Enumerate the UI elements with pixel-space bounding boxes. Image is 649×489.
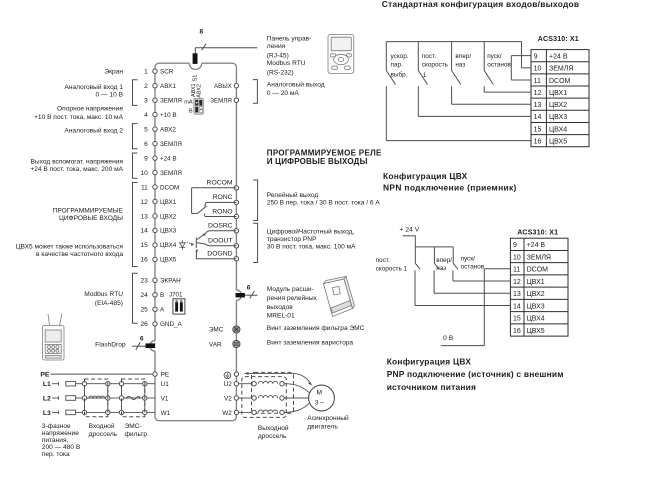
svg-text:Аналоговый вход 1: Аналоговый вход 1 (64, 83, 123, 91)
svg-text:наз: наз (436, 265, 446, 272)
svg-text:АВХ1: АВХ1 (160, 83, 176, 90)
svg-text:в качестве частотного входа: в качестве частотного входа (36, 251, 123, 258)
svg-text:3 ~: 3 ~ (315, 399, 324, 406)
svg-text:наз: наз (455, 61, 465, 68)
svg-text:15: 15 (534, 126, 542, 133)
svg-text:Релейный выход: Релейный выход (267, 191, 319, 199)
svg-text:ЗЕМЛЯ: ЗЕМЛЯ (210, 98, 232, 105)
svg-text:0 — 10 В: 0 — 10 В (96, 92, 124, 99)
svg-text:6: 6 (140, 336, 144, 343)
svg-text:+ 24 V: + 24 V (399, 226, 419, 233)
svg-text:9: 9 (144, 155, 148, 162)
svg-text:Аналоговый выход: Аналоговый выход (267, 81, 325, 89)
svg-text:DOSRC: DOSRC (208, 223, 233, 230)
svg-text:+24 В: +24 В (160, 155, 177, 162)
svg-text:10: 10 (140, 170, 148, 177)
svg-text:+24 В: +24 В (527, 242, 546, 249)
svg-text:ЦВХ5 может также использоватьс: ЦВХ5 может также использоваться (16, 244, 124, 251)
svg-text:16: 16 (140, 257, 148, 264)
svg-text:B: B (160, 292, 164, 299)
svg-text:Аналоговый вход 2: Аналоговый вход 2 (64, 126, 123, 134)
svg-text:Опорное напряжение: Опорное напряжение (57, 105, 123, 112)
svg-text:АВХ2: АВХ2 (160, 126, 176, 133)
svg-text:Винт заземления фильтра ЭМС: Винт заземления фильтра ЭМС (267, 325, 365, 332)
svg-text:ЦВХ4: ЦВХ4 (160, 242, 177, 249)
svg-text:транзистор PNP: транзистор PNP (267, 236, 317, 243)
svg-text:ROCOM: ROCOM (207, 180, 233, 187)
svg-text:Винт заземления варистора: Винт заземления варистора (267, 339, 354, 346)
svg-text:V1: V1 (161, 395, 169, 402)
svg-text:(EIA-485): (EIA-485) (95, 300, 123, 307)
svg-text:АВХ2: АВХ2 (196, 84, 202, 98)
svg-text:ACS310: X1: ACS310: X1 (517, 228, 558, 236)
svg-text:23: 23 (140, 278, 148, 285)
svg-text:питания,: питания, (42, 437, 69, 444)
svg-text:выбр.: выбр. (391, 70, 408, 78)
svg-text:DOGND: DOGND (207, 251, 232, 258)
svg-text:Экран: Экран (104, 68, 123, 75)
svg-text:14: 14 (140, 228, 148, 235)
svg-text:ЦВХ1: ЦВХ1 (549, 90, 567, 97)
svg-text:11: 11 (534, 78, 541, 85)
svg-text:VAR: VAR (209, 341, 222, 348)
svg-text:250 В пер. тока / 30 В пост. т: 250 В пер. тока / 30 В пост. тока / 6 А (267, 200, 381, 207)
svg-text:Выходной: Выходной (258, 424, 289, 432)
svg-text:25: 25 (140, 307, 148, 314)
svg-text:RONC: RONC (213, 194, 233, 201)
svg-text:PNP подключение (источник) с в: PNP подключение (источник) с внешним (387, 369, 564, 379)
svg-text:ЦВХ4: ЦВХ4 (527, 316, 545, 323)
svg-text:ЦВХ3: ЦВХ3 (160, 228, 177, 235)
svg-text:останов: останов (461, 263, 485, 270)
svg-text:15: 15 (513, 316, 521, 323)
svg-text:ЦВХ1: ЦВХ1 (160, 199, 177, 206)
svg-text:ЦВХ5: ЦВХ5 (160, 257, 177, 264)
svg-text:И ЦИФРОВЫЕ ВЫХОДЫ: И ЦИФРОВЫЕ ВЫХОДЫ (267, 157, 368, 166)
svg-text:10: 10 (513, 254, 521, 261)
svg-text:дроссель: дроссель (89, 431, 118, 438)
svg-text:16: 16 (534, 139, 542, 146)
svg-text:L3: L3 (43, 410, 51, 417)
svg-text:рения релейных: рения релейных (267, 294, 318, 302)
svg-text:RONO: RONO (212, 208, 232, 215)
svg-text:mA: mA (184, 99, 193, 105)
svg-text:0 В: 0 В (443, 335, 454, 342)
svg-text:скорость: скорость (422, 61, 449, 68)
svg-text:Конфигурация ЦВХ: Конфигурация ЦВХ (383, 171, 468, 181)
svg-text:ЭМС-: ЭМС- (125, 423, 142, 430)
svg-text:12: 12 (140, 199, 148, 206)
svg-text:+10 В: +10 В (160, 112, 177, 119)
svg-text:9: 9 (513, 242, 517, 249)
svg-text:пуск/: пуск/ (487, 53, 502, 60)
svg-text:напряжение: напряжение (42, 430, 79, 437)
svg-text:ЦВХ2: ЦВХ2 (527, 291, 545, 298)
svg-text:1: 1 (144, 69, 148, 76)
svg-text:ЭМС: ЭМС (209, 327, 224, 334)
svg-text:0 — 20 мА: 0 — 20 мА (267, 90, 300, 97)
svg-text:ЦВХ1: ЦВХ1 (527, 279, 545, 286)
svg-text:V2: V2 (224, 395, 232, 402)
svg-text:4: 4 (144, 112, 148, 119)
svg-text:DCOM: DCOM (549, 78, 571, 85)
svg-text:W1: W1 (161, 410, 171, 417)
svg-text:9: 9 (534, 54, 538, 61)
svg-text:5: 5 (144, 126, 148, 133)
svg-text:ЦИФРОВЫЕ ВХОДЫ: ЦИФРОВЫЕ ВХОДЫ (59, 215, 123, 222)
svg-text:ЦВХ4: ЦВХ4 (549, 126, 567, 133)
svg-text:ЗЕМЛЯ: ЗЕМЛЯ (160, 170, 182, 177)
svg-text:12: 12 (534, 90, 542, 97)
svg-text:6: 6 (247, 284, 251, 291)
svg-text:U2: U2 (224, 381, 233, 388)
svg-text:14: 14 (513, 303, 521, 310)
svg-text:ускор.: ускор. (391, 53, 409, 60)
svg-text:26: 26 (140, 321, 148, 328)
svg-text:дроссель: дроссель (258, 433, 287, 440)
svg-text:скорость 1: скорость 1 (376, 265, 408, 272)
svg-text:PE: PE (161, 371, 170, 378)
svg-text:2: 2 (144, 83, 148, 90)
svg-text:источником питания: источником питания (387, 382, 476, 392)
svg-text:пер. тока: пер. тока (42, 451, 70, 458)
svg-text:АВЫХ: АВЫХ (214, 83, 232, 90)
svg-text:ПРОГРАММИРУЕМЫЕ: ПРОГРАММИРУЕМЫЕ (53, 208, 124, 215)
svg-text:W2: W2 (222, 410, 232, 417)
svg-text:16: 16 (513, 328, 521, 335)
svg-text:DCOM: DCOM (527, 267, 549, 274)
svg-text:впер/: впер/ (436, 257, 452, 264)
svg-text:1: 1 (423, 72, 427, 79)
svg-text:11: 11 (141, 184, 148, 191)
svg-text:ЦВХ5: ЦВХ5 (549, 139, 567, 146)
svg-text:(RS-232): (RS-232) (267, 69, 294, 76)
svg-text:Modbus RTU: Modbus RTU (84, 291, 123, 298)
svg-text:30 В пост. тока, макс. 100 мА: 30 В пост. тока, макс. 100 мА (267, 244, 356, 251)
svg-text:14: 14 (534, 114, 542, 121)
svg-text:+24 В: +24 В (549, 54, 568, 61)
svg-text:24: 24 (140, 292, 148, 299)
svg-text:Modbus RTU: Modbus RTU (267, 60, 306, 67)
svg-text:13: 13 (140, 213, 148, 220)
svg-text:13: 13 (534, 102, 542, 109)
svg-text:J701: J701 (169, 291, 183, 298)
svg-text:DCOM: DCOM (160, 184, 179, 191)
svg-text:Конфигурация ЦВХ: Конфигурация ЦВХ (387, 356, 472, 366)
svg-text:ЗЕМЛЯ: ЗЕМЛЯ (549, 66, 573, 73)
svg-text:DOOUT: DOOUT (208, 238, 233, 245)
svg-text:(RJ-45): (RJ-45) (267, 52, 289, 59)
svg-text:13: 13 (513, 291, 521, 298)
svg-text:ления: ления (267, 43, 286, 50)
svg-text:8: 8 (200, 28, 204, 35)
svg-text:ЗЕМЛЯ: ЗЕМЛЯ (160, 141, 182, 148)
svg-text:+24 В пост. тока, макс. 200 мА: +24 В пост. тока, макс. 200 мА (30, 166, 123, 173)
svg-text:ЦВХ3: ЦВХ3 (527, 303, 545, 310)
svg-text:11: 11 (513, 267, 520, 274)
svg-text:ЦВХ5: ЦВХ5 (527, 328, 545, 335)
svg-text:Стандартная конфигурация входо: Стандартная конфигурация входов/выходов (382, 0, 580, 9)
svg-text:NPN подключение (приемник): NPN подключение (приемник) (383, 183, 517, 193)
svg-text:3-фазное: 3-фазное (42, 423, 71, 430)
svg-text:ЗЕМЛЯ: ЗЕМЛЯ (527, 254, 551, 261)
svg-text:6: 6 (144, 141, 148, 148)
svg-text:ACS310: X1: ACS310: X1 (538, 35, 579, 43)
svg-text:двигатель: двигатель (307, 424, 338, 431)
svg-text:Выход вспомогат. напряжения: Выход вспомогат. напряжения (31, 159, 124, 166)
svg-text:+10 В пост. тока, макс. 10 мА: +10 В пост. тока, макс. 10 мА (34, 114, 124, 121)
svg-text:впер/: впер/ (455, 53, 471, 60)
svg-text:MREL-01: MREL-01 (267, 313, 295, 320)
svg-text:пар.: пар. (391, 61, 404, 68)
svg-text:SCR: SCR (160, 69, 174, 76)
svg-text:12: 12 (513, 279, 521, 286)
svg-text:3: 3 (144, 98, 148, 105)
svg-text:М: М (317, 390, 323, 397)
svg-text:останов: останов (487, 61, 511, 68)
svg-text:пост.: пост. (376, 257, 390, 264)
svg-text:S1: S1 (193, 75, 199, 82)
svg-text:пост.: пост. (422, 53, 436, 60)
svg-text:15: 15 (140, 242, 148, 249)
svg-text:ЦВХ2: ЦВХ2 (549, 102, 567, 109)
svg-text:ЦифровойЧастотный выход,: ЦифровойЧастотный выход, (267, 228, 355, 236)
svg-text:L1: L1 (43, 381, 51, 388)
svg-text:B: B (189, 109, 193, 115)
svg-text:Входной: Входной (89, 422, 115, 430)
svg-text:ЦВХ2: ЦВХ2 (160, 213, 177, 220)
svg-text:пуск/: пуск/ (461, 255, 476, 262)
svg-text:PE: PE (40, 372, 50, 379)
svg-text:10: 10 (534, 66, 542, 73)
svg-text:U1: U1 (161, 381, 170, 388)
svg-text:200 — 480 В: 200 — 480 В (42, 444, 81, 451)
svg-text:Панель управ-: Панель управ- (267, 36, 312, 43)
svg-text:выходов: выходов (267, 304, 294, 311)
svg-text:L2: L2 (43, 395, 51, 402)
svg-text:FlashDrop: FlashDrop (95, 341, 126, 348)
svg-text:ЦВХ3: ЦВХ3 (549, 114, 567, 121)
svg-text:фильтр: фильтр (125, 431, 148, 438)
svg-text:ЭКРАН: ЭКРАН (160, 278, 181, 285)
svg-text:ЗЕМЛЯ: ЗЕМЛЯ (160, 98, 182, 105)
svg-text:Асинхронный: Асинхронный (307, 414, 349, 422)
svg-text:GND_A: GND_A (160, 321, 182, 328)
svg-text:Модуль расши-: Модуль расши- (267, 286, 314, 293)
